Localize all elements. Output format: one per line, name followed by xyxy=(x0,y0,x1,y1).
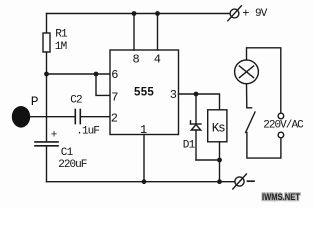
watermark IWMS.NET xyxy=(262,192,300,203)
svg-text:IWMS.NET: IWMS.NET xyxy=(262,192,300,203)
wire pin 3 output xyxy=(179,94,220,110)
switch contact tick xyxy=(247,107,251,109)
svg-text:+: + xyxy=(51,129,57,141)
svg-text:555: 555 xyxy=(134,86,154,98)
microphone P xyxy=(12,106,30,128)
op IC 555 box U1 xyxy=(110,50,179,135)
svg-text:1M: 1M xyxy=(55,41,67,53)
resistor R1 xyxy=(43,33,50,52)
relay coil Ks xyxy=(208,110,227,142)
svg-text:C1: C1 xyxy=(61,147,74,159)
wire pin 8 stub xyxy=(133,14,135,51)
lamp xyxy=(235,60,259,84)
wire C2 to pin 2 xyxy=(81,116,110,118)
svg-text:220uF: 220uF xyxy=(58,159,87,171)
wire Ks bottom xyxy=(219,142,221,182)
terminal 220V bottom xyxy=(278,132,284,138)
wire pin 6 xyxy=(47,73,111,75)
wire R1 bottom to node P xyxy=(46,52,48,142)
wire lamp bottom to switch xyxy=(246,84,248,108)
svg-text:9V: 9V xyxy=(255,8,268,20)
wire pin 4 stub xyxy=(157,14,159,51)
wire C1 bottom to ground rail xyxy=(46,146,48,182)
capacitor C1 plates xyxy=(35,142,58,146)
svg-text:.1uF: .1uF xyxy=(76,126,99,138)
wire pin 1 stub xyxy=(143,135,145,182)
node junction pin 1 on bottom rail xyxy=(142,179,147,184)
wire mic to node P xyxy=(30,116,75,118)
wire left vertical (R1 branch top) xyxy=(46,14,48,34)
wire D1 to Ks bottom xyxy=(196,159,220,161)
node junction pin 4 on top rail xyxy=(155,11,160,16)
svg-text:D1: D1 xyxy=(183,140,196,152)
terminal +9V xyxy=(230,9,239,18)
terminal minus xyxy=(235,177,244,186)
capacitor C2 xyxy=(75,110,80,124)
node junction bottom rail xyxy=(217,179,222,184)
svg-text:220V/AC: 220V/AC xyxy=(263,120,304,132)
node junction pin 8 on top rail xyxy=(132,11,137,16)
wire bottom rail xyxy=(47,181,235,183)
svg-text:R1: R1 xyxy=(55,28,68,40)
node junction D1/Ks xyxy=(217,158,222,163)
node junction pin7 tap xyxy=(94,72,99,77)
wire top rail xyxy=(47,13,230,15)
label minus dash xyxy=(248,180,255,182)
terminal 220V top xyxy=(278,113,284,119)
diode D1 (zener) xyxy=(195,94,197,124)
node junction pin 3 / D1 xyxy=(194,92,199,97)
svg-text:C2: C2 xyxy=(70,95,82,107)
node junction pin6 tap xyxy=(44,72,49,77)
switch blade xyxy=(246,112,255,133)
wire pin 7 link xyxy=(96,74,110,95)
svg-text:Ks: Ks xyxy=(212,122,225,136)
wire switch bottom xyxy=(247,133,281,159)
wire lamp top loop xyxy=(247,48,281,113)
